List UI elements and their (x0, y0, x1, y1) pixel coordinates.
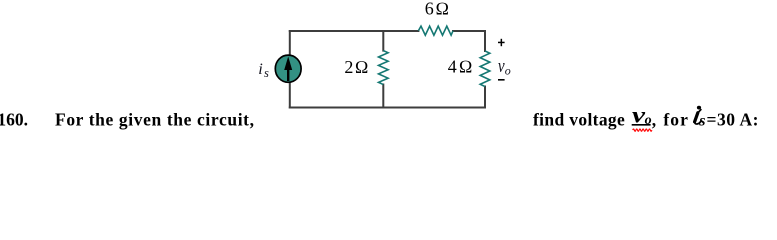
svg-text:Ω: Ω (435, 0, 449, 19)
svg-text:o: o (645, 113, 652, 128)
svg-text:o: o (505, 64, 511, 78)
svg-text:For the given the circuit,: For the given the circuit, (55, 109, 254, 129)
svg-text:6: 6 (425, 0, 434, 19)
svg-text:160.: 160. (0, 109, 28, 129)
svg-text:2: 2 (344, 57, 353, 77)
svg-text:=30 A:: =30 A: (707, 109, 759, 129)
svg-text:Ω: Ω (459, 57, 473, 77)
svg-text:,: , (652, 109, 656, 129)
svg-text:s: s (698, 113, 705, 130)
svg-text:s: s (264, 66, 269, 80)
svg-text:for: for (663, 109, 688, 129)
svg-text:4: 4 (448, 57, 457, 77)
svg-text:find voltage: find voltage (533, 109, 625, 129)
svg-text:i: i (258, 59, 263, 78)
svg-text:Ω: Ω (355, 57, 369, 77)
